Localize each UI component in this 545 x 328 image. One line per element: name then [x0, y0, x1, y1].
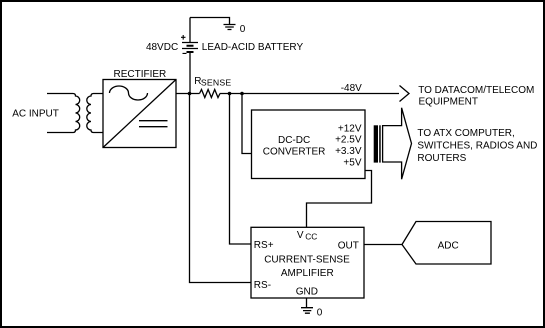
svg-text:AC INPUT: AC INPUT	[12, 108, 59, 119]
svg-text:OUT: OUT	[338, 240, 359, 251]
svg-text:V: V	[297, 230, 304, 241]
svg-text:RS-: RS-	[254, 280, 271, 291]
svg-text:CC: CC	[305, 232, 317, 242]
svg-text:DC-DC: DC-DC	[278, 135, 310, 146]
svg-text:RS+: RS+	[254, 240, 274, 251]
svg-text:SWITCHES, RADIOS AND: SWITCHES, RADIOS AND	[417, 140, 537, 151]
svg-text:TO ATX COMPUTER,: TO ATX COMPUTER,	[417, 128, 514, 139]
svg-text:CURRENT-SENSE: CURRENT-SENSE	[264, 254, 350, 265]
svg-text:LEAD-ACID BATTERY: LEAD-ACID BATTERY	[202, 42, 304, 53]
svg-text:-48V: -48V	[341, 83, 362, 94]
svg-text:+5V: +5V	[343, 158, 361, 169]
svg-text:+3.3V: +3.3V	[335, 146, 362, 157]
svg-text:CONVERTER: CONVERTER	[263, 146, 326, 157]
svg-text:+12V: +12V	[338, 123, 362, 134]
svg-text:0: 0	[240, 24, 246, 35]
svg-text:TO DATACOM/TELECOM: TO DATACOM/TELECOM	[418, 85, 534, 96]
svg-text:0: 0	[317, 308, 323, 319]
svg-text:RECTIFIER: RECTIFIER	[114, 69, 167, 80]
svg-text:+2.5V: +2.5V	[335, 135, 362, 146]
svg-text:ROUTERS: ROUTERS	[417, 153, 466, 164]
svg-text:ADC: ADC	[438, 240, 459, 251]
svg-text:SENSE: SENSE	[201, 77, 231, 87]
svg-text:48VDC: 48VDC	[146, 42, 178, 53]
svg-text:EQUIPMENT: EQUIPMENT	[419, 96, 478, 107]
svg-text:GND: GND	[296, 286, 318, 297]
svg-text:AMPLIFIER: AMPLIFIER	[281, 268, 334, 279]
